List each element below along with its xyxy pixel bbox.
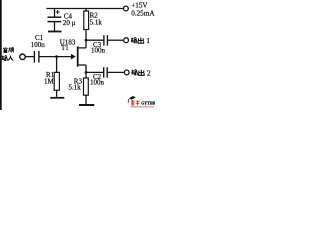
svg-text:100n: 100n <box>90 79 105 87</box>
svg-text:5.1k: 5.1k <box>90 18 103 26</box>
svg-text:20 μ: 20 μ <box>63 19 76 27</box>
svg-text:1: 1 <box>146 36 150 45</box>
svg-text:100n: 100n <box>91 46 106 54</box>
svg-text:2: 2 <box>147 68 151 77</box>
svg-text:T1: T1 <box>61 44 69 52</box>
svg-text:5.1k: 5.1k <box>69 84 82 92</box>
svg-text:100n: 100n <box>31 41 46 49</box>
svg-text:GYTBB: GYTBB <box>141 101 155 106</box>
svg-text:+15V: +15V <box>131 2 148 10</box>
svg-text:1M: 1M <box>44 77 55 85</box>
svg-text:0.25mA: 0.25mA <box>131 9 155 17</box>
